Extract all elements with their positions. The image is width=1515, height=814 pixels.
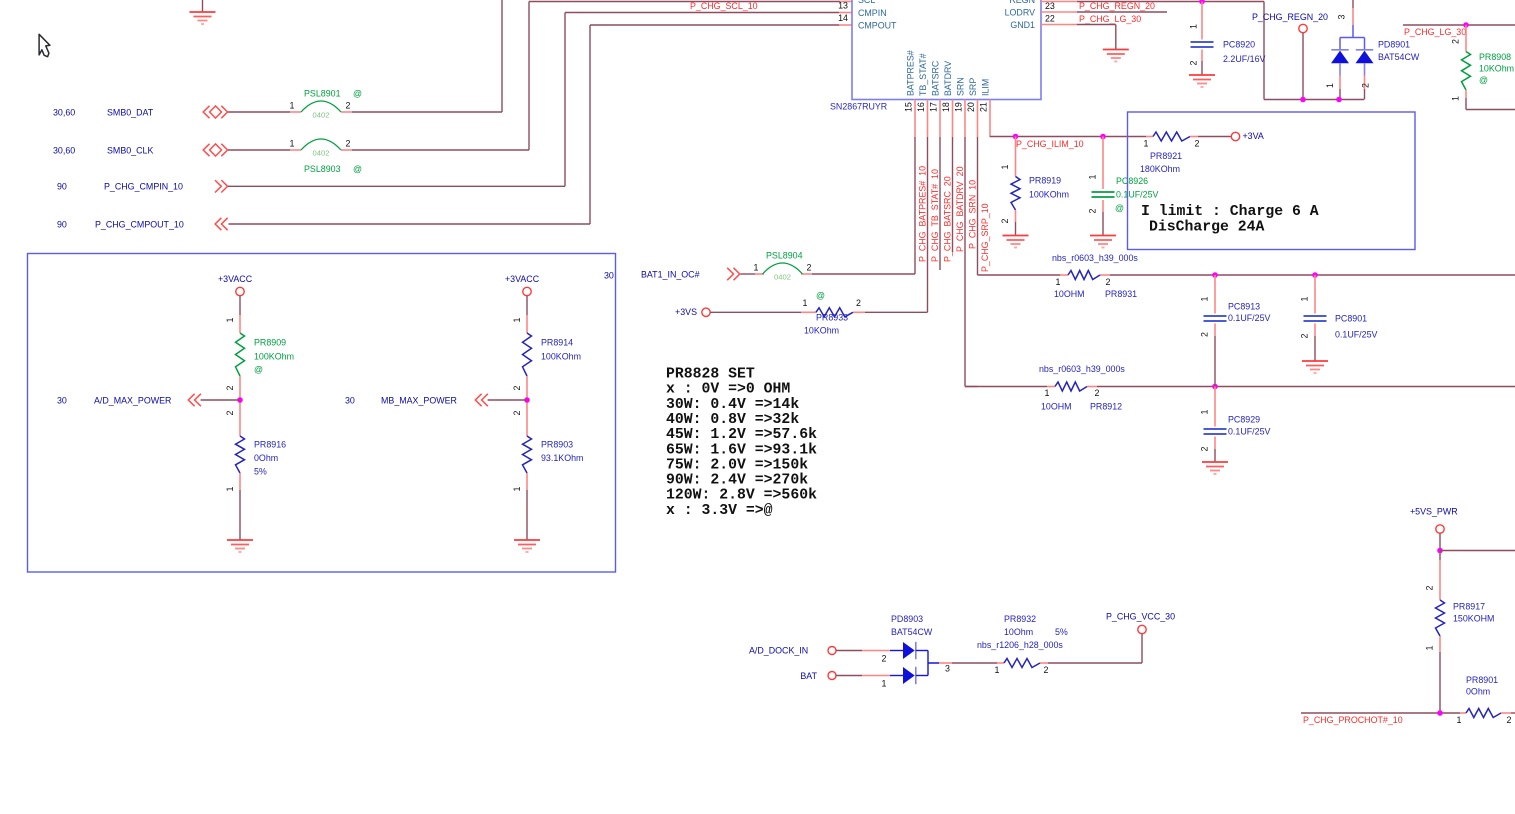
wire pin19 SRN down	[964, 137, 966, 387]
svg-text:2: 2	[1300, 333, 1310, 338]
IC bottom pin stubs	[914, 100, 916, 138]
svg-text:nbs_r0603_h39_000s: nbs_r0603_h39_000s	[1052, 253, 1138, 263]
svg-text:BATDRV: BATDRV	[943, 61, 953, 96]
junction node SRP/PC8901	[1312, 272, 1318, 278]
wire SMB0_DAT vertical	[501, 0, 503, 112]
svg-text:+3VS: +3VS	[675, 307, 697, 317]
svg-text:BAT1_IN_OC#: BAT1_IN_OC#	[641, 269, 700, 279]
svg-text:P_CHG_TB_STAT#_10: P_CHG_TB_STAT#_10	[930, 169, 940, 262]
svg-text:1: 1	[1189, 24, 1199, 29]
svg-text:SMB0_CLK: SMB0_CLK	[107, 145, 153, 155]
junction node LG_30/PR8908	[1463, 22, 1469, 28]
svg-text:2: 2	[807, 263, 812, 273]
svg-text:2: 2	[225, 410, 235, 415]
wire SRP row	[978, 274, 1061, 276]
svg-text:1: 1	[1088, 174, 1098, 179]
svg-text:10OHM: 10OHM	[1054, 289, 1085, 299]
ground (PC8901)	[1302, 360, 1328, 362]
port MB_MAX_POWER (output)	[488, 399, 527, 401]
svg-text:2: 2	[225, 385, 235, 390]
svg-text:PR8916: PR8916	[254, 440, 286, 450]
svg-text:P_CHG_LG_30: P_CHG_LG_30	[1404, 27, 1466, 37]
resistor PR8914 upper	[526, 296, 528, 315]
svg-text:2: 2	[1451, 39, 1461, 44]
svg-text:PR8914: PR8914	[541, 338, 573, 348]
svg-text:90: 90	[57, 182, 67, 192]
svg-text:13: 13	[838, 1, 848, 11]
svg-text:PR8921: PR8921	[1150, 151, 1182, 161]
svg-text:10OHM: 10OHM	[1041, 402, 1072, 412]
svg-text:PR8931: PR8931	[1105, 289, 1137, 299]
svg-text:14: 14	[838, 13, 848, 23]
svg-text:2: 2	[512, 385, 522, 390]
svg-text:BAT: BAT	[800, 671, 817, 681]
svg-text:PC8929: PC8929	[1228, 415, 1260, 425]
svg-text:2: 2	[346, 139, 351, 149]
svg-text:0.1UF/25V: 0.1UF/25V	[1228, 427, 1271, 437]
svg-text:PSL8901: PSL8901	[304, 89, 341, 99]
svg-text:2: 2	[1507, 715, 1512, 725]
svg-text:PD8903: PD8903	[891, 614, 923, 624]
svg-text:19: 19	[954, 102, 964, 112]
svg-text:2: 2	[882, 653, 887, 663]
svg-text:21: 21	[979, 102, 989, 112]
svg-text:MB_MAX_POWER: MB_MAX_POWER	[381, 395, 457, 405]
wire P_CHG_ILIM_10	[990, 136, 1146, 138]
dual diode PD8901 BAT54CW	[1352, 0, 1354, 8]
ground (PR8919)	[1003, 235, 1029, 237]
svg-text:A/D_DOCK_IN: A/D_DOCK_IN	[749, 646, 808, 656]
wire +5VS_PWR branch right	[1440, 550, 1515, 552]
resistor PR8917 150KOHM	[1439, 560, 1441, 600]
svg-text:2: 2	[1425, 585, 1435, 590]
svg-text:23: 23	[1045, 1, 1055, 11]
svg-text:P_CHG_BATSRC_20: P_CHG_BATSRC_20	[943, 176, 953, 262]
svg-text:1: 1	[512, 317, 522, 322]
wire +5VS_PWR down	[1439, 533, 1441, 560]
svg-text:1: 1	[803, 298, 808, 308]
svg-text:@: @	[1115, 203, 1124, 213]
port P_CHG_CMPIN_10 (input)	[215, 180, 221, 192]
svg-text:PR8919: PR8919	[1029, 176, 1061, 186]
junction node PROCHOT/PR8917	[1437, 710, 1443, 716]
wire pin17 BATSRC (stub)	[939, 137, 941, 270]
svg-text:22: 22	[1045, 14, 1055, 24]
wire CMPIN net	[564, 13, 566, 187]
svg-text:nbs_r0603_h39_000s: nbs_r0603_h39_000s	[1039, 364, 1125, 374]
svg-text:1: 1	[995, 665, 1000, 675]
svg-text:PR8933: PR8933	[816, 313, 848, 323]
svg-text:2: 2	[1044, 665, 1049, 675]
port P_CHG_CMPOUT_10 (output)	[215, 218, 221, 230]
svg-text:180KOhm: 180KOhm	[1140, 164, 1180, 174]
svg-text:SN2867RUYR: SN2867RUYR	[830, 102, 887, 112]
svg-text:1: 1	[225, 317, 235, 322]
svg-text:PR8828 SET: PR8828 SET	[666, 367, 755, 383]
svg-text:0Ohm: 0Ohm	[254, 453, 278, 463]
wire SRN row	[965, 386, 1047, 388]
svg-text:PC8901: PC8901	[1335, 314, 1367, 324]
svg-text:150KOHM: 150KOHM	[1453, 614, 1494, 624]
resistor PR8908 10KOhm	[1465, 25, 1467, 52]
port A/D_MAX_POWER (output)	[201, 399, 240, 401]
svg-text:P_CHG_SCL_10: P_CHG_SCL_10	[690, 1, 758, 11]
svg-text:P_CHG_SRP_10: P_CHG_SRP_10	[980, 203, 990, 272]
svg-text:P_CHG_SRN_10: P_CHG_SRN_10	[968, 180, 978, 249]
svg-text:16: 16	[916, 102, 926, 112]
svg-text:P_CHG_ILIM_10: P_CHG_ILIM_10	[1016, 139, 1084, 149]
svg-text:2: 2	[856, 298, 861, 308]
junction node +5VS_PWR branch	[1437, 548, 1443, 554]
ground (PC8926)	[1090, 235, 1116, 237]
svg-text:A/D_MAX_POWER: A/D_MAX_POWER	[94, 395, 171, 405]
svg-text:0402: 0402	[313, 111, 330, 120]
svg-text:+3VACC: +3VACC	[218, 274, 253, 284]
svg-text:3: 3	[945, 664, 950, 674]
svg-text:@: @	[353, 89, 362, 99]
junction node A/D_MAX_POWER	[239, 392, 241, 408]
svg-text:10KOhm: 10KOhm	[804, 326, 839, 336]
svg-text:2.2UF/16V: 2.2UF/16V	[1223, 54, 1266, 64]
resistor PR8901 0Ohm	[1460, 712, 1466, 714]
svg-text:2: 2	[1361, 83, 1371, 88]
svg-text:40W: 0.8V =>32k: 40W: 0.8V =>32k	[666, 412, 799, 428]
svg-text:0Ohm: 0Ohm	[1466, 687, 1490, 697]
junction node REGN/PC8920	[1199, 0, 1205, 4]
svg-text:PSL8904: PSL8904	[766, 251, 803, 261]
svg-text:2: 2	[346, 101, 351, 111]
svg-text:1: 1	[882, 678, 887, 688]
svg-text:DisCharge 24A: DisCharge 24A	[1149, 220, 1265, 236]
svg-text:PR8908: PR8908	[1479, 52, 1511, 62]
svg-text:1: 1	[1056, 277, 1061, 287]
svg-text:10Ohm: 10Ohm	[1004, 627, 1033, 637]
svg-text:PR8932: PR8932	[1004, 614, 1036, 624]
ferrite bead PSL8901	[301, 101, 341, 112]
svg-text:1: 1	[1045, 388, 1050, 398]
svg-text:1: 1	[1325, 83, 1335, 88]
svg-text:PSL8903: PSL8903	[304, 164, 341, 174]
IC U8901 SN2867RUYR body	[852, 0, 1041, 100]
svg-text:0402: 0402	[313, 149, 330, 158]
svg-text:PR8909: PR8909	[254, 338, 286, 348]
svg-text:2: 2	[1106, 277, 1111, 287]
svg-text:1: 1	[754, 263, 759, 273]
svg-text:@: @	[353, 164, 362, 174]
resistor PR8933 10KOhm	[816, 308, 853, 317]
svg-text:2: 2	[1200, 332, 1210, 337]
svg-text:30,60: 30,60	[53, 107, 75, 117]
capacitor PC8926 0.1UF/25V (green)	[1102, 137, 1104, 190]
svg-text:100KOhm: 100KOhm	[541, 352, 581, 362]
capacitor PC8901 0.1UF/25V	[1314, 275, 1316, 314]
svg-text:REGN: REGN	[1009, 0, 1035, 5]
svg-text:+3VA: +3VA	[1243, 131, 1264, 141]
junction node MB_MAX_POWER	[526, 392, 528, 408]
junction node SRP/PC8913	[1212, 272, 1218, 278]
junction node PD8901 pin1	[1336, 97, 1342, 103]
power symbol P_CHG_VCC_30	[1138, 625, 1146, 633]
svg-text:5%: 5%	[1055, 627, 1068, 637]
resistor PR8912 10OHM	[1055, 382, 1087, 391]
svg-text:1: 1	[1425, 645, 1435, 650]
capacitor PC8929 0.1UF/25V	[1214, 387, 1216, 427]
svg-text:LODRV: LODRV	[1005, 7, 1035, 17]
resistor PR8921 180KOhm	[1146, 136, 1153, 138]
svg-text:1: 1	[1451, 96, 1461, 101]
svg-text:BAT54CW: BAT54CW	[1378, 52, 1420, 62]
svg-text:P_CHG_PROCHOT#_10: P_CHG_PROCHOT#_10	[1303, 715, 1403, 725]
svg-text:ILIM: ILIM	[981, 79, 991, 96]
svg-text:PC8926: PC8926	[1116, 176, 1148, 186]
svg-text:P_CHG_REGN_20: P_CHG_REGN_20	[1079, 1, 1155, 11]
capacitor PC8913 0.1UF/25V	[1214, 275, 1216, 314]
ground (top left)	[202, 0, 204, 12]
junction node power/rail	[1300, 97, 1306, 103]
svg-text:100KOhm: 100KOhm	[254, 352, 294, 362]
dual diode PD8903 BAT54CW	[890, 650, 903, 652]
wire GND1 to ground	[1041, 24, 1077, 26]
wire SCL net (SMB0_CLK to pin SCL)	[528, 2, 530, 151]
svg-text:0.1UF/25V: 0.1UF/25V	[1228, 313, 1271, 323]
svg-text:P_CHG_CMPIN_10: P_CHG_CMPIN_10	[104, 182, 183, 192]
svg-text:20: 20	[966, 102, 976, 112]
svg-text:CMPIN: CMPIN	[858, 8, 887, 18]
svg-text:BATSRC: BATSRC	[931, 60, 941, 96]
wire pin21 ILIM down	[989, 136, 991, 139]
wire pin18 BATDRV (stub)	[952, 137, 954, 252]
svg-text:@: @	[816, 290, 825, 300]
svg-text:BATPRES#: BATPRES#	[906, 50, 916, 96]
wire LODRV	[1041, 11, 1077, 13]
junction node ILIM/PR8919	[1013, 134, 1019, 140]
svg-text:+5VS_PWR: +5VS_PWR	[1410, 507, 1458, 517]
power symbol +3VA	[1231, 132, 1239, 140]
svg-text:15: 15	[904, 102, 914, 112]
wire diode output	[939, 662, 952, 664]
wire +3VS row	[710, 311, 801, 313]
svg-text:10KOhm: 10KOhm	[1479, 64, 1514, 74]
wire SMB0_DAT row	[228, 111, 290, 113]
svg-text:x : 0V =>0 OHM: x : 0V =>0 OHM	[666, 382, 790, 398]
svg-text:1: 1	[1200, 409, 1210, 414]
wire REGN rail	[1041, 1, 1077, 3]
svg-text:+3VACC: +3VACC	[505, 274, 540, 284]
ground (PR8903)	[514, 539, 540, 541]
wire pin16 TB_STAT# to +3VS pullup	[927, 137, 929, 312]
svg-text:x : 3.3V =>@: x : 3.3V =>@	[666, 503, 773, 519]
wire CMPOUT net	[589, 25, 591, 224]
svg-text:0402: 0402	[774, 273, 791, 282]
svg-text:2: 2	[1000, 218, 1010, 223]
svg-text:1: 1	[1000, 164, 1010, 169]
resistor PR8931 10OHM	[1068, 271, 1100, 280]
wire P_CHG_CMPIN_10	[228, 185, 565, 187]
wire P_CHG_PROCHOT#_10	[1301, 712, 1460, 714]
resistor PR8919 100KOhm	[1015, 137, 1017, 161]
junction node SRN/PC8913/PC8929	[1212, 384, 1218, 390]
svg-text:SRP: SRP	[968, 78, 978, 96]
svg-text:3: 3	[1337, 14, 1347, 19]
mouse cursor	[39, 34, 50, 56]
svg-text:18: 18	[941, 102, 951, 112]
svg-text:5%: 5%	[254, 467, 267, 477]
wire BAT	[836, 675, 862, 677]
svg-text:TB_STAT#: TB_STAT#	[918, 53, 928, 96]
svg-text:100KOhm: 100KOhm	[1029, 190, 1069, 200]
wire pin15 BATPRES# to BAT1_IN_OC#	[914, 137, 916, 274]
svg-text:90: 90	[57, 219, 67, 229]
ground (PC8929)	[1202, 461, 1228, 463]
port SMB0_DAT (bidirectional)	[203, 106, 209, 118]
svg-text:SRN: SRN	[956, 77, 966, 96]
svg-text:PR8901: PR8901	[1466, 675, 1498, 685]
wire P_CHG_LG_30 (right)	[1403, 24, 1515, 26]
svg-text:1: 1	[1300, 296, 1310, 301]
ground (GND1)	[1103, 49, 1129, 51]
svg-text:65W: 1.6V =>93.1k: 65W: 1.6V =>93.1k	[666, 442, 817, 458]
svg-text:P_CHG_BATPRES#_10: P_CHG_BATPRES#_10	[918, 166, 928, 262]
svg-text:GND1: GND1	[1010, 20, 1035, 30]
svg-text:CMPOUT: CMPOUT	[858, 20, 897, 30]
svg-text:2: 2	[512, 410, 522, 415]
svg-text:P_CHG_LG_30: P_CHG_LG_30	[1079, 14, 1141, 24]
svg-text:45W: 1.2V =>57.6k: 45W: 1.2V =>57.6k	[666, 427, 817, 443]
svg-text:1: 1	[290, 101, 295, 111]
junction node ILIM/PC8926	[1100, 134, 1106, 140]
svg-text:75W: 2.0V =>150k: 75W: 2.0V =>150k	[666, 457, 808, 473]
svg-text:2: 2	[1095, 388, 1100, 398]
svg-text:1: 1	[290, 139, 295, 149]
svg-text:I limit : Charge 6 A: I limit : Charge 6 A	[1141, 204, 1319, 220]
wire SMB0_CLK row	[228, 149, 290, 151]
svg-text:30,60: 30,60	[53, 145, 75, 155]
ground (PR8916)	[227, 539, 253, 541]
svg-text:@: @	[1479, 75, 1488, 85]
svg-text:@: @	[254, 365, 263, 375]
svg-text:P_CHG_VCC_30: P_CHG_VCC_30	[1106, 612, 1175, 622]
svg-text:1: 1	[512, 486, 522, 491]
ferrite bead PSL8904	[763, 263, 803, 274]
wire pin20 SRP down	[977, 137, 979, 275]
svg-text:0.1UF/25V: 0.1UF/25V	[1116, 190, 1159, 200]
svg-text:PR8912: PR8912	[1090, 402, 1122, 412]
svg-text:2: 2	[1195, 139, 1200, 149]
group box (max power dividers)	[28, 254, 616, 573]
svg-text:30W: 0.4V =>14k: 30W: 0.4V =>14k	[666, 397, 799, 413]
svg-text:120W: 2.8V =>560k: 120W: 2.8V =>560k	[666, 488, 817, 504]
svg-text:PC8920: PC8920	[1223, 40, 1255, 50]
svg-text:P_CHG_CMPOUT_10: P_CHG_CMPOUT_10	[95, 219, 184, 229]
resistor PR8916 lower	[239, 408, 241, 436]
wire A/D_DOCK_IN	[836, 650, 862, 652]
svg-text:SMB0_DAT: SMB0_DAT	[107, 107, 154, 117]
wire BAT1_IN_OC#	[741, 273, 756, 275]
resistor PR8909 upper	[239, 296, 241, 315]
svg-text:1: 1	[1200, 296, 1210, 301]
svg-text:30: 30	[604, 271, 614, 281]
svg-text:30: 30	[57, 395, 67, 405]
svg-text:90W: 2.4V =>270k: 90W: 2.4V =>270k	[666, 473, 808, 489]
svg-text:0.1UF/25V: 0.1UF/25V	[1335, 330, 1378, 340]
svg-text:93.1KOhm: 93.1KOhm	[541, 453, 583, 463]
svg-text:1: 1	[1457, 715, 1462, 725]
resistor PR8903 lower	[526, 408, 528, 436]
svg-text:1: 1	[225, 486, 235, 491]
resistor PR8932 10Ohm	[1004, 659, 1040, 668]
svg-text:2: 2	[1200, 446, 1210, 451]
wire P_CHG_CMPOUT_10	[229, 223, 591, 225]
port BAT1_IN_OC# (input)	[727, 268, 733, 280]
svg-text:2: 2	[1189, 60, 1199, 65]
ground (PC8920)	[1189, 74, 1215, 76]
svg-text:2: 2	[1088, 208, 1098, 213]
svg-text:30: 30	[345, 395, 355, 405]
svg-text:P_CHG_REGN_20: P_CHG_REGN_20	[1252, 12, 1328, 22]
svg-text:1: 1	[1144, 139, 1149, 149]
ferrite bead PSL8903	[301, 139, 341, 150]
svg-text:17: 17	[929, 102, 939, 112]
capacitor PC8920 2.2UF/16V	[1201, 2, 1203, 40]
svg-text:PR8917: PR8917	[1453, 602, 1485, 612]
svg-text:SCL: SCL	[858, 0, 875, 5]
svg-text:PC8913: PC8913	[1228, 302, 1260, 312]
note box I limit	[1128, 112, 1416, 250]
svg-text:P_CHG_BATDRV_20: P_CHG_BATDRV_20	[955, 166, 965, 252]
svg-text:BAT54CW: BAT54CW	[891, 627, 933, 637]
port SMB0_CLK (bidirectional)	[203, 144, 209, 156]
svg-text:PR8903: PR8903	[541, 440, 573, 450]
svg-text:PD8901: PD8901	[1378, 40, 1410, 50]
svg-text:nbs_r1206_h28_000s: nbs_r1206_h28_000s	[977, 640, 1063, 650]
